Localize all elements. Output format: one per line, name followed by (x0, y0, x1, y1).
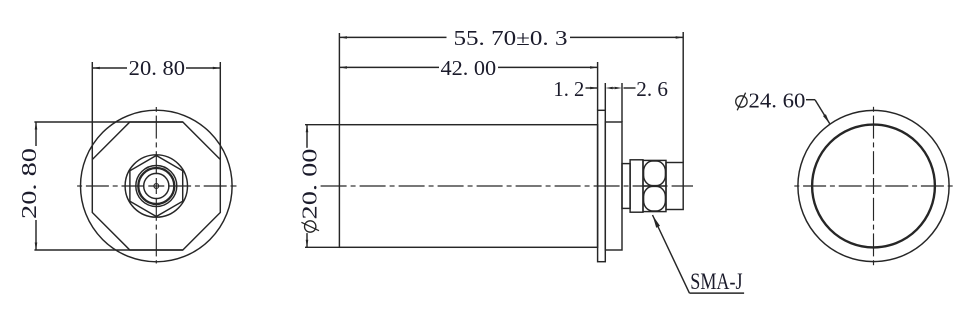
dimension Φ20.00 (305, 125, 339, 248)
flange disc Φ24.60, 1.2 thick (598, 110, 606, 261)
cylinder body 42.00 x Φ20.00 (339, 125, 597, 248)
svg-text:2. 6: 2. 6 (636, 77, 668, 101)
svg-text:1. 2: 1. 2 (553, 77, 584, 101)
dimension 42.00 (339, 62, 597, 110)
neck cylinder (622, 164, 630, 209)
thread outer circle (136, 166, 177, 207)
inner circle Φ20.00 bold (812, 125, 935, 248)
outer circle Φ24.60 (798, 110, 949, 261)
svg-text:20. 80: 20. 80 (17, 148, 41, 219)
SMA circumscribed circle (125, 155, 187, 217)
end barrel (666, 163, 683, 210)
dimension 20.80 top of left view (92, 62, 220, 160)
svg-text:24. 60: 24. 60 (749, 88, 806, 112)
dimensions 1.2 and 2.6 (586, 83, 636, 122)
diameter symbol of Φ20.00 (rotated) (301, 221, 319, 232)
dielectric circle (144, 173, 169, 198)
left view horizontal centerline (77, 185, 236, 187)
octagonal section 2.6 long (605, 122, 622, 250)
right view horizontal centerline (794, 185, 952, 187)
svg-text:20. 80: 20. 80 (129, 56, 185, 80)
svg-text:SMA-J: SMA-J (690, 269, 742, 294)
center pin circle (154, 184, 159, 189)
octagonal flats 20.80 across (92, 122, 220, 250)
left view vertical centerline (155, 107, 157, 264)
dimension 20.80 left of left view (34, 122, 182, 250)
dimension 55.70±0.3 (339, 32, 683, 163)
body circle Φ24.60 front view (81, 110, 233, 262)
svg-text:20. 00: 20. 00 (298, 149, 322, 220)
SMA hex nut front face (130, 156, 183, 217)
barrel circle bold (138, 168, 174, 204)
diameter symbol of Φ24.60 (736, 93, 747, 111)
svg-text:55. 70±0. 3: 55. 70±0. 3 (454, 26, 568, 50)
middle view centerline (321, 185, 693, 187)
Φ24.60 leader (806, 100, 830, 124)
svg-text:42. 00: 42. 00 (441, 56, 497, 80)
collar (630, 160, 643, 212)
right view vertical centerline (873, 107, 875, 265)
SMA nut side view (643, 160, 666, 211)
SMA-J leader (653, 215, 745, 293)
